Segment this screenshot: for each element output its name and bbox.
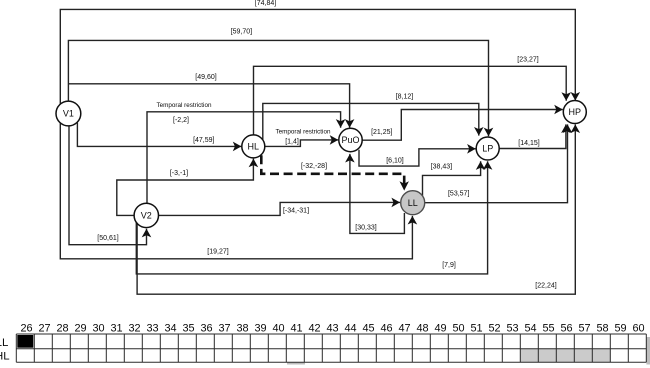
svg-text:Temporal restriction: Temporal restriction	[157, 102, 212, 109]
svg-text:[74,84]: [74,84]	[255, 0, 276, 7]
wire V1 to HP [74,84]	[60, 0, 575, 104]
node V1	[56, 101, 81, 126]
svg-text:31: 31	[110, 322, 122, 334]
svg-text:50: 50	[452, 322, 464, 334]
svg-text:[59,70]: [59,70]	[231, 29, 252, 36]
svg-text:32: 32	[128, 322, 140, 334]
node LL	[401, 191, 425, 215]
svg-text:43: 43	[326, 322, 338, 334]
wire HL to PuO temporal restriction [1,4]	[265, 129, 339, 147]
svg-text:34: 34	[164, 322, 176, 334]
timeline table column numbers	[20, 322, 644, 334]
svg-text:38: 38	[236, 322, 248, 334]
wire V1 to LL [19,27]	[60, 123, 412, 259]
svg-text:42: 42	[308, 322, 320, 334]
svg-text:[14,15]: [14,15]	[518, 140, 539, 147]
svg-text:45: 45	[362, 322, 374, 334]
svg-text:[6,10]: [6,10]	[386, 158, 404, 165]
timeline table shadow under cell 41	[287, 362, 305, 364]
svg-text:33: 33	[146, 322, 158, 334]
wire V1 to PuO [49,60]	[68, 74, 349, 128]
svg-text:55: 55	[542, 322, 554, 334]
svg-text:26: 26	[20, 322, 32, 334]
svg-text:V2: V2	[141, 211, 152, 221]
svg-text:LL: LL	[0, 337, 8, 349]
svg-text:[22,24]: [22,24]	[535, 282, 556, 289]
svg-text:[-3,-1]: [-3,-1]	[170, 170, 188, 177]
svg-text:40: 40	[272, 322, 284, 334]
svg-text:47: 47	[398, 322, 410, 334]
wire LL to PuO [30,33]	[350, 154, 405, 234]
wire HL to LP [8,12]	[263, 93, 479, 140]
svg-text:44: 44	[344, 322, 356, 334]
svg-text:[30,33]: [30,33]	[355, 224, 376, 231]
svg-text:46: 46	[380, 322, 392, 334]
svg-text:[1,4]: [1,4]	[285, 138, 299, 145]
svg-text:[47,59]: [47,59]	[193, 137, 214, 144]
svg-text:28: 28	[56, 322, 68, 334]
svg-text:41: 41	[290, 322, 302, 334]
wire HL to LL dashed [-32,-28]	[261, 155, 409, 190]
svg-text:[19,27]: [19,27]	[207, 249, 228, 256]
wire V1 to LP [59,70]	[68, 29, 488, 137]
node LP	[476, 137, 499, 160]
svg-text:[8,12]: [8,12]	[396, 93, 414, 100]
svg-text:[-2,2]: [-2,2]	[173, 117, 189, 124]
svg-text:54: 54	[524, 322, 536, 334]
svg-text:V1: V1	[63, 109, 74, 119]
svg-text:Temporal restriction: Temporal restriction	[276, 129, 331, 136]
node PuO	[339, 128, 362, 151]
wire V2 to LL [-34,-31]	[159, 202, 401, 215]
svg-text:53: 53	[506, 322, 518, 334]
svg-text:[-32,-28]: [-32,-28]	[301, 163, 327, 170]
svg-text:[-34,-31]: [-34,-31]	[283, 207, 309, 214]
svg-text:52: 52	[488, 322, 500, 334]
timeline table black cell 26 LL	[17, 335, 33, 348]
timeline table grid	[16, 334, 646, 362]
svg-text:36: 36	[200, 322, 212, 334]
svg-text:LL: LL	[408, 198, 418, 208]
svg-text:37: 37	[218, 322, 230, 334]
svg-text:LP: LP	[482, 144, 493, 154]
wire V1 to HL [47,59]	[77, 123, 241, 147]
node HL	[242, 135, 265, 158]
svg-text:[53,57]: [53,57]	[448, 191, 469, 198]
wire LL to HP [53,57]	[425, 124, 568, 202]
svg-text:39: 39	[254, 322, 266, 334]
svg-text:[50,61]: [50,61]	[97, 235, 118, 242]
svg-text:[23,27]: [23,27]	[517, 57, 538, 64]
wire V2 to LP [7,9]	[136, 161, 487, 274]
svg-text:PuO: PuO	[341, 135, 359, 145]
wire V1 to V2 [50,61]	[69, 126, 147, 245]
svg-text:HP: HP	[569, 107, 582, 117]
svg-text:[49,60]: [49,60]	[195, 74, 216, 81]
svg-text:[21,25]: [21,25]	[371, 129, 392, 136]
svg-text:58: 58	[596, 322, 608, 334]
wire V2 to HL [-3,-1]	[117, 159, 254, 216]
wire LL to LP [38,43]	[423, 161, 481, 195]
svg-text:[7,9]: [7,9]	[442, 262, 456, 269]
timeline table shadow right	[646, 337, 650, 365]
node HP	[563, 101, 586, 124]
svg-text:29: 29	[74, 322, 86, 334]
wire LP to HP [14,15]	[499, 124, 566, 148]
wire V2 to PuO temporal restriction [-2,2]	[147, 102, 341, 203]
wire HL to HP [23,27]	[254, 57, 567, 135]
svg-text:51: 51	[470, 322, 482, 334]
svg-text:48: 48	[416, 322, 428, 334]
svg-text:35: 35	[182, 322, 194, 334]
svg-text:30: 30	[92, 322, 104, 334]
svg-text:49: 49	[434, 322, 446, 334]
svg-text:56: 56	[560, 322, 572, 334]
svg-text:27: 27	[38, 322, 50, 334]
wire PuO to LP [6,10]	[359, 149, 476, 166]
svg-text:59: 59	[614, 322, 626, 334]
svg-text:57: 57	[578, 322, 590, 334]
svg-text:60: 60	[632, 322, 644, 334]
wire PuO to HP [21,25]	[362, 110, 563, 141]
timeline table gray cells 54-58 HL	[520, 349, 610, 363]
wire V2 to HP [22,24]	[137, 124, 575, 294]
svg-text:[38,43]: [38,43]	[431, 164, 452, 171]
svg-text:HL: HL	[0, 351, 10, 363]
svg-text:HL: HL	[248, 142, 260, 152]
node V2	[134, 203, 158, 227]
